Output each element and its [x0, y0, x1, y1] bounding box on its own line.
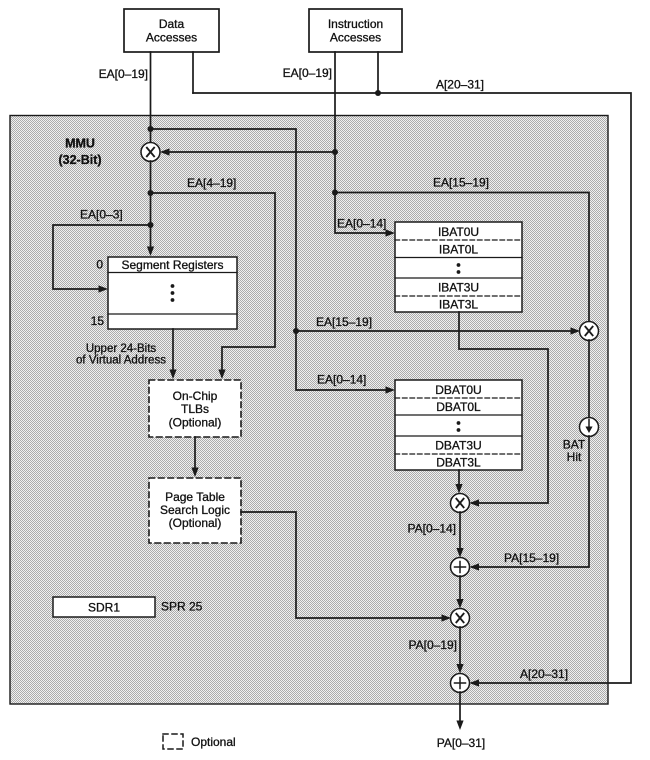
wire: BAT hit output down, PA[15-19] into adder: [472, 436, 589, 567]
junction: data EA branch node: [148, 126, 154, 132]
IBAT3U/IBAT3L dashed divider: [395, 295, 522, 297]
segment registers header line: [108, 272, 237, 274]
arrowhead into final adder (right, A[20-31]): [470, 679, 480, 686]
svg-text:Search Logic: Search Logic: [160, 503, 230, 517]
svg-text:EA[4–19]: EA[4–19]: [187, 176, 236, 190]
junction: EA[15-19] data branch node: [293, 328, 299, 334]
arrowhead into BAT select mux: [571, 327, 581, 334]
mux U3: BAT result mux (X): [451, 494, 470, 513]
arrowhead into final adder (top): [456, 664, 463, 674]
arrowhead into DBAT: [386, 386, 396, 393]
arrowhead into BAT result mux (right): [470, 499, 480, 506]
svg-text:On-Chip: On-Chip: [173, 389, 218, 403]
adder A1: PA high adder (+): [451, 558, 470, 577]
arrowhead into page table search logic: [191, 468, 198, 478]
arrowhead into TLBs (right): [218, 370, 225, 380]
arrowhead into segment registers side: [99, 285, 109, 292]
svg-text:A[20–31]: A[20–31]: [520, 667, 568, 681]
wire: BAT select output down to BAT hit indicator: [588, 340, 590, 418]
wire: A[20-31] net across top, down right side, into low-order adder: [193, 93, 631, 683]
junction: EA[4-19] branch: [148, 190, 154, 196]
DBAT0L solid divider: [395, 414, 522, 416]
DBAT ellipsis dots: [457, 421, 461, 432]
svg-text:15: 15: [91, 314, 105, 328]
DBAT0U/DBAT0L dashed divider: [395, 397, 522, 399]
svg-text:IBAT0U: IBAT0U: [438, 225, 479, 239]
DBAT3U/DBAT3L dashed divider: [395, 453, 522, 455]
block: Page Table Search Logic (optional, dashed): [149, 478, 241, 543]
svg-text:EA[0–19]: EA[0–19]: [283, 66, 332, 80]
svg-text:PA[15–19]: PA[15–19]: [504, 551, 559, 565]
arrowhead PA[0-31]: [456, 721, 463, 731]
svg-text:Optional: Optional: [191, 735, 236, 749]
segment registers ellipsis dots: [171, 284, 175, 302]
wire: mux output down to segment registers: [150, 161, 152, 253]
wire: DBAT output down to BAT result mux: [458, 470, 460, 490]
wire: instruction EA[15-19] to BAT select mux: [335, 193, 589, 323]
svg-text:Accesses: Accesses: [330, 31, 381, 45]
mux U4: page address mux (X): [451, 609, 470, 628]
label Upper 24-Bits of Virtual Address: [76, 343, 166, 367]
wire: TLBs to page table search logic: [194, 437, 196, 474]
legend: optional dashed box: [163, 734, 183, 749]
svg-text:Data: Data: [159, 17, 185, 31]
arrowhead into PA adder (top): [456, 548, 463, 558]
DBAT middle solid divider: [395, 435, 522, 437]
arrowhead into BAT result mux (top): [455, 484, 462, 494]
mux U2: BAT select (X): [580, 322, 599, 341]
svg-text:Upper 24-Bits: Upper 24-Bits: [86, 343, 157, 355]
svg-text:A[20–31]: A[20–31]: [436, 78, 484, 92]
adder A2: final physical address adder (+): [451, 674, 470, 693]
wire: EA[0-3] to segment register side: [53, 225, 151, 289]
wire: page table search logic output to page mux: [241, 512, 448, 618]
svg-text:EA[15–19]: EA[15–19]: [433, 176, 489, 190]
svg-text:EA[0–19]: EA[0–19]: [99, 67, 148, 81]
svg-text:MMU: MMU: [65, 137, 95, 151]
IBAT0L solid divider: [395, 257, 522, 259]
wire: PA[0-31] output out of MMU: [459, 692, 461, 725]
arrowhead into TLBs (left): [169, 370, 176, 380]
junction: instruction EA[15-19] branch: [332, 190, 338, 196]
block: Data Accesses: [124, 9, 219, 52]
svg-text:EA[0–14]: EA[0–14]: [317, 373, 366, 387]
wire: PA[0-14] down to adder: [459, 512, 461, 554]
svg-text:TLBs: TLBs: [181, 402, 209, 416]
arrowhead into EA select mux: [160, 148, 170, 155]
wire: PA[0-19] down to final adder: [459, 627, 461, 670]
wire: instruction EA[0-19] leg down to IBAT feed: [335, 52, 390, 233]
svg-text:Accesses: Accesses: [146, 31, 197, 45]
svg-text:Page Table: Page Table: [165, 490, 225, 504]
mux U1: EA select (X): [141, 143, 160, 162]
wire: IBAT output around DBAT to BAT mux: [459, 312, 548, 503]
wire: arrow line into EA select mux: [163, 151, 335, 153]
wire: data A[20-31] leg: [192, 52, 194, 93]
svg-text:SDR1: SDR1: [88, 601, 120, 615]
svg-text:EA[0–3]: EA[0–3]: [80, 208, 123, 222]
svg-text:of Virtual Address: of Virtual Address: [76, 355, 166, 367]
svg-text:IBAT0L: IBAT0L: [439, 243, 478, 257]
svg-text:Instruction: Instruction: [328, 17, 383, 31]
block: Segment Registers: [108, 257, 237, 329]
wire: EA[4-19] to on-chip TLBs: [151, 193, 276, 376]
wire: data EA branch to DBAT feed: [151, 129, 391, 390]
junction: instruction EA to mux arrow: [332, 149, 338, 155]
svg-text:(32-Bit): (32-Bit): [58, 153, 101, 167]
junction: instruction leg joins A[20-31] line: [375, 90, 381, 96]
svg-text:EA[0–14]: EA[0–14]: [337, 217, 386, 231]
svg-text:Hit: Hit: [567, 450, 582, 464]
MMU label: [58, 137, 101, 168]
wire: EA[15-19] data line to BAT select mux: [296, 330, 577, 332]
block: IBAT array: [395, 222, 522, 312]
wire: adder output down to page mux: [459, 576, 461, 605]
svg-text:SPR 25: SPR 25: [161, 600, 203, 614]
svg-text:(Optional): (Optional): [169, 416, 222, 430]
MMU block (shaded region): [10, 116, 608, 705]
arrowhead into page mux (top): [456, 599, 463, 609]
arrowhead into page mux (left): [442, 614, 452, 621]
block: DBAT array: [395, 380, 522, 470]
arrowhead into segment registers: [147, 247, 154, 257]
svg-text:IBAT3L: IBAT3L: [439, 298, 478, 312]
svg-text:PA[0–19]: PA[0–19]: [409, 638, 457, 652]
BAT hit indicator circle: [580, 418, 599, 437]
svg-text:DBAT3L: DBAT3L: [436, 456, 481, 470]
IBAT0U/IBAT0L dashed divider: [395, 239, 522, 241]
block: SDR1 register: [53, 597, 155, 617]
block: Instruction Accesses: [309, 9, 402, 52]
svg-text:DBAT0U: DBAT0U: [435, 383, 481, 397]
segment registers lower line: [108, 313, 237, 315]
arrowhead into IBAT: [386, 229, 396, 236]
junction: EA[0-3] branch: [148, 222, 154, 228]
BAT hit arrow glyph: [588, 420, 590, 428]
arrowhead into PA adder (right): [470, 563, 480, 570]
svg-text:IBAT3U: IBAT3U: [438, 281, 479, 295]
IBAT middle solid divider: [395, 277, 522, 279]
IBAT ellipsis dots: [457, 263, 461, 274]
svg-text:EA[15–19]: EA[15–19]: [316, 315, 372, 329]
wire: instruction right leg: [377, 52, 379, 93]
wire: segment registers output to TLBs: [172, 329, 174, 376]
svg-text:DBAT3U: DBAT3U: [435, 439, 481, 453]
svg-text:PA[0–14]: PA[0–14]: [408, 522, 456, 536]
svg-text:Segment Registers: Segment Registers: [121, 258, 223, 272]
block: On-Chip TLBs (optional, dashed): [149, 380, 241, 437]
svg-text:PA[0–31]: PA[0–31]: [437, 736, 485, 750]
label BAT Hit: [563, 438, 586, 465]
svg-text:DBAT0L: DBAT0L: [436, 400, 481, 414]
wire: data EA[0-19] leg down into MMU to mux: [150, 52, 152, 143]
svg-text:(Optional): (Optional): [169, 516, 222, 530]
svg-text:0: 0: [96, 258, 103, 272]
